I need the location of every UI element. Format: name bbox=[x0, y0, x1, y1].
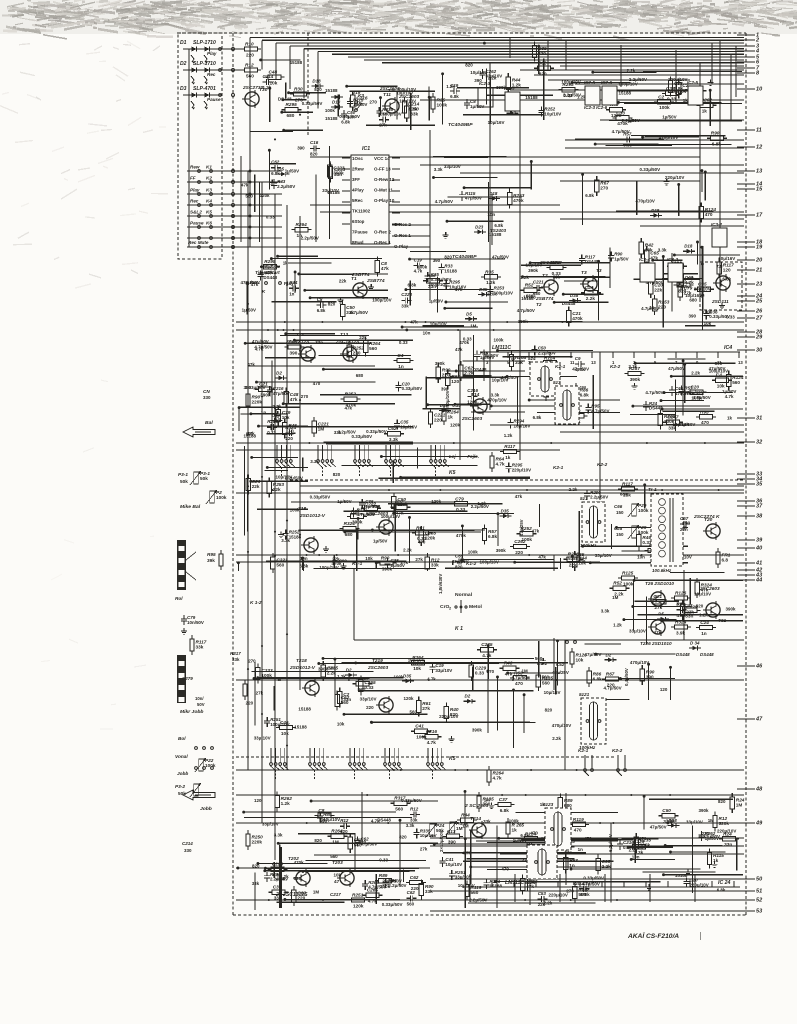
svg-text:0.33: 0.33 bbox=[267, 430, 276, 435]
svg-text:10k: 10k bbox=[365, 556, 373, 561]
svg-text:37: 37 bbox=[756, 504, 763, 510]
svg-text:470k: 470k bbox=[572, 316, 583, 321]
svg-text:O-Play: O-Play bbox=[394, 244, 409, 249]
svg-text:2.2μ/50V: 2.2μ/50V bbox=[277, 184, 295, 189]
svg-text:2x 2SC1312S: 2x 2SC1312S bbox=[275, 892, 308, 898]
svg-text:4.7μ/50V: 4.7μ/50V bbox=[604, 685, 622, 690]
svg-text:10μ/16V: 10μ/16V bbox=[400, 425, 417, 430]
svg-text:220μ/10V: 220μ/10V bbox=[439, 714, 458, 719]
svg-text:100μ/10V: 100μ/10V bbox=[428, 282, 447, 287]
svg-text:C62: C62 bbox=[271, 160, 280, 165]
svg-text:560: 560 bbox=[341, 700, 349, 705]
svg-text:47k: 47k bbox=[677, 613, 685, 618]
svg-text:47k: 47k bbox=[650, 256, 658, 261]
svg-text:1n: 1n bbox=[569, 863, 575, 868]
svg-text:47μ/25V: 47μ/25V bbox=[552, 670, 569, 675]
svg-text:D2: D2 bbox=[606, 652, 612, 657]
svg-text:6.8k: 6.8k bbox=[712, 142, 722, 147]
svg-text:S&L2: S&L2 bbox=[190, 210, 202, 215]
svg-text:T219: T219 bbox=[372, 658, 383, 663]
svg-text:820: 820 bbox=[538, 51, 546, 56]
svg-text:10k: 10k bbox=[281, 731, 289, 736]
svg-text:4.7μ/50V: 4.7μ/50V bbox=[254, 344, 272, 349]
svg-text:T12: T12 bbox=[296, 332, 304, 337]
svg-text:IC3-2: IC3-2 bbox=[667, 257, 678, 262]
svg-text:100k: 100k bbox=[261, 673, 272, 678]
svg-text:10μ/10V: 10μ/10V bbox=[470, 70, 487, 75]
svg-text:1M: 1M bbox=[708, 818, 714, 823]
svg-text:47μ/50V: 47μ/50V bbox=[492, 255, 509, 260]
svg-text:R251: R251 bbox=[352, 892, 364, 897]
svg-text:270: 270 bbox=[248, 659, 256, 664]
svg-text:560: 560 bbox=[732, 380, 740, 385]
svg-text:R119: R119 bbox=[573, 817, 584, 822]
svg-text:5z3: 5z3 bbox=[553, 380, 561, 385]
svg-text:33k: 33k bbox=[483, 819, 491, 824]
svg-text:22k: 22k bbox=[339, 279, 347, 284]
svg-text:29: 29 bbox=[755, 335, 763, 341]
svg-text:25: 25 bbox=[755, 299, 763, 305]
svg-text:47k: 47k bbox=[290, 397, 298, 402]
svg-text:D5: D5 bbox=[658, 612, 664, 617]
svg-text:820: 820 bbox=[465, 63, 473, 68]
svg-text:220: 220 bbox=[411, 886, 419, 891]
svg-text:T30: T30 bbox=[259, 87, 268, 93]
svg-text:3.3k: 3.3k bbox=[434, 167, 443, 172]
svg-text:TC4049BP: TC4049BP bbox=[452, 254, 477, 260]
svg-text:47μ/25V: 47μ/25V bbox=[519, 519, 524, 536]
svg-text:820: 820 bbox=[314, 838, 322, 843]
svg-text:R44: R44 bbox=[461, 813, 470, 818]
svg-text:T26 2SD1010: T26 2SD1010 bbox=[645, 581, 674, 586]
svg-text:820: 820 bbox=[310, 151, 318, 156]
svg-text:470k: 470k bbox=[332, 561, 342, 566]
svg-text:D18: D18 bbox=[312, 79, 321, 84]
svg-text:C223: C223 bbox=[401, 292, 412, 297]
svg-text:1.2k: 1.2k bbox=[520, 275, 529, 280]
svg-text:6,2μ/50V: 6,2μ/50V bbox=[608, 834, 613, 852]
svg-text:2SD111: 2SD111 bbox=[711, 299, 729, 305]
svg-text:1k: 1k bbox=[713, 858, 719, 863]
svg-text:53: 53 bbox=[756, 909, 763, 915]
svg-text:120: 120 bbox=[723, 267, 731, 272]
svg-text:120: 120 bbox=[660, 687, 668, 692]
svg-text:R90: R90 bbox=[381, 555, 390, 560]
svg-text:820: 820 bbox=[718, 799, 726, 804]
svg-text:4.7μ/50V: 4.7μ/50V bbox=[591, 409, 609, 414]
svg-text:1.2k: 1.2k bbox=[613, 623, 622, 628]
svg-text:470: 470 bbox=[701, 420, 709, 425]
svg-text:2.2k: 2.2k bbox=[488, 76, 497, 81]
svg-text:470: 470 bbox=[418, 539, 426, 544]
svg-text:15188: 15188 bbox=[444, 268, 457, 273]
svg-text:26: 26 bbox=[755, 309, 763, 315]
svg-text:0.33μ/50V: 0.33μ/50V bbox=[382, 902, 403, 907]
svg-text:10μ/16V: 10μ/16V bbox=[488, 120, 505, 125]
svg-text:100μ/10V: 100μ/10V bbox=[480, 560, 499, 565]
svg-text:3.3k: 3.3k bbox=[666, 818, 675, 823]
svg-text:0.33μ/50V: 0.33μ/50V bbox=[366, 429, 387, 434]
svg-text:2×10μ/10V: 2×10μ/10V bbox=[439, 830, 444, 852]
svg-text:R253: R253 bbox=[357, 676, 369, 681]
svg-text:3.9k: 3.9k bbox=[676, 601, 686, 606]
svg-text:390k: 390k bbox=[472, 728, 482, 733]
svg-text:820: 820 bbox=[573, 881, 581, 886]
svg-text:O-Play 10: O-Play 10 bbox=[374, 198, 395, 203]
svg-text:47k: 47k bbox=[381, 266, 389, 271]
svg-text:390: 390 bbox=[290, 350, 298, 355]
svg-text:220: 220 bbox=[434, 417, 442, 422]
svg-text:T14: T14 bbox=[471, 392, 480, 398]
svg-text:1μ/50V: 1μ/50V bbox=[722, 389, 736, 394]
svg-text:4.7k: 4.7k bbox=[427, 740, 437, 745]
svg-text:C66: C66 bbox=[614, 504, 623, 509]
svg-text:27k: 27k bbox=[379, 123, 387, 128]
svg-text:10μ/10V: 10μ/10V bbox=[694, 592, 711, 597]
svg-text:10μ/10V: 10μ/10V bbox=[445, 862, 462, 867]
svg-text:CN: CN bbox=[203, 389, 210, 394]
svg-text:270: 270 bbox=[600, 186, 608, 191]
svg-text:51: 51 bbox=[756, 889, 762, 895]
svg-text:220μ/10V: 220μ/10V bbox=[512, 467, 531, 472]
svg-text:560: 560 bbox=[578, 892, 586, 897]
svg-text:0,4μ/50V: 0,4μ/50V bbox=[624, 668, 629, 686]
svg-text:R317: R317 bbox=[230, 651, 241, 656]
svg-text:C279: C279 bbox=[182, 676, 193, 681]
svg-text:K2: K2 bbox=[206, 176, 212, 181]
svg-text:C52: C52 bbox=[556, 662, 565, 667]
svg-text:1n: 1n bbox=[398, 364, 404, 369]
svg-text:1n: 1n bbox=[288, 428, 294, 433]
svg-text:18k: 18k bbox=[623, 492, 631, 497]
svg-text:D2: D2 bbox=[465, 694, 471, 699]
svg-text:39k: 39k bbox=[207, 558, 215, 563]
svg-text:470: 470 bbox=[501, 867, 509, 872]
svg-text:0.33μ/50V: 0.33μ/50V bbox=[401, 798, 422, 803]
svg-text:390k: 390k bbox=[333, 171, 344, 176]
svg-text:1M: 1M bbox=[318, 426, 325, 431]
svg-text:11: 11 bbox=[717, 360, 722, 365]
svg-text:470: 470 bbox=[515, 681, 523, 686]
svg-text:100k: 100k bbox=[494, 337, 504, 342]
svg-text:D2: D2 bbox=[276, 370, 282, 375]
svg-text:T218: T218 bbox=[296, 658, 307, 663]
svg-text:Pause: Pause bbox=[207, 97, 221, 102]
svg-text:SLP-1710: SLP-1710 bbox=[193, 40, 216, 46]
svg-text:390: 390 bbox=[297, 145, 305, 150]
svg-text:5z1: 5z1 bbox=[580, 496, 588, 501]
svg-text:3.3k: 3.3k bbox=[274, 832, 283, 837]
svg-text:560: 560 bbox=[410, 709, 418, 714]
svg-text:TS2403: TS2403 bbox=[490, 228, 507, 233]
svg-text:10k: 10k bbox=[717, 384, 725, 389]
svg-text:470: 470 bbox=[574, 828, 582, 833]
svg-text:10μ/10V: 10μ/10V bbox=[430, 321, 447, 326]
svg-text:27k: 27k bbox=[256, 690, 264, 695]
svg-text:D18: D18 bbox=[684, 244, 693, 249]
svg-text:C28: C28 bbox=[614, 526, 623, 531]
svg-text:1M: 1M bbox=[456, 826, 463, 831]
svg-text:C37: C37 bbox=[499, 797, 508, 802]
svg-text:2.2μ/50V: 2.2μ/50V bbox=[469, 898, 487, 903]
svg-text:47: 47 bbox=[334, 879, 340, 884]
svg-text:48: 48 bbox=[755, 787, 763, 793]
svg-text:1M: 1M bbox=[484, 797, 490, 802]
svg-text:1μ/50V: 1μ/50V bbox=[484, 353, 498, 358]
svg-text:10n: 10n bbox=[637, 554, 645, 559]
svg-text:5z24: 5z24 bbox=[525, 880, 536, 885]
svg-text:33k: 33k bbox=[515, 360, 523, 365]
svg-text:5Rec: 5Rec bbox=[352, 198, 363, 203]
svg-text:150: 150 bbox=[616, 510, 624, 515]
svg-text:560: 560 bbox=[276, 563, 284, 568]
svg-text:C19: C19 bbox=[414, 257, 423, 262]
svg-text:R324: R324 bbox=[675, 619, 687, 624]
svg-text:40: 40 bbox=[755, 546, 763, 552]
svg-text:2.2μ/50V: 2.2μ/50V bbox=[629, 77, 647, 82]
svg-text:100k: 100k bbox=[417, 265, 427, 270]
svg-text:47μ/50V: 47μ/50V bbox=[273, 391, 290, 396]
svg-text:5z21: 5z21 bbox=[579, 692, 590, 697]
svg-text:C221: C221 bbox=[533, 280, 544, 285]
svg-text:390k: 390k bbox=[496, 548, 506, 553]
svg-text:3.3k: 3.3k bbox=[389, 437, 399, 442]
svg-text:120k: 120k bbox=[353, 903, 364, 908]
svg-text:4.7μ/50V: 4.7μ/50V bbox=[517, 308, 535, 313]
svg-text:5z23: 5z23 bbox=[543, 802, 554, 807]
svg-text:27k: 27k bbox=[422, 706, 430, 711]
svg-text:K2-1: K2-1 bbox=[578, 748, 589, 753]
svg-text:0.33: 0.33 bbox=[452, 403, 461, 408]
svg-text:10k: 10k bbox=[576, 658, 584, 663]
svg-text:Normal: Normal bbox=[455, 592, 473, 598]
svg-text:SLP-1710: SLP-1710 bbox=[193, 61, 216, 67]
svg-text:100k: 100k bbox=[468, 550, 478, 555]
svg-text:33μ/10V: 33μ/10V bbox=[435, 668, 452, 673]
svg-text:3.3k: 3.3k bbox=[658, 248, 667, 253]
svg-text:2.2k: 2.2k bbox=[627, 68, 636, 73]
svg-text:2SD1012-V: 2SD1012-V bbox=[289, 665, 316, 671]
svg-text:K2-2: K2-2 bbox=[597, 462, 608, 467]
svg-text:15188: 15188 bbox=[290, 60, 303, 65]
svg-text:0.33: 0.33 bbox=[667, 97, 677, 102]
svg-text:220k: 220k bbox=[252, 840, 263, 845]
svg-text:47μ/50V: 47μ/50V bbox=[668, 366, 685, 371]
svg-text:15188: 15188 bbox=[294, 725, 307, 730]
svg-text:100k: 100k bbox=[638, 508, 649, 513]
svg-text:1M: 1M bbox=[332, 840, 339, 845]
svg-text:27k: 27k bbox=[420, 847, 428, 852]
svg-text:D2: D2 bbox=[346, 668, 352, 673]
svg-text:4.7k: 4.7k bbox=[496, 462, 506, 467]
svg-text:470μ/10V: 470μ/10V bbox=[552, 723, 571, 728]
svg-text:33μ/10V: 33μ/10V bbox=[444, 164, 461, 169]
svg-text:2.2μ/50V: 2.2μ/50V bbox=[388, 883, 406, 888]
svg-text:15188: 15188 bbox=[325, 116, 338, 121]
svg-text:2.2μ/50V: 2.2μ/50V bbox=[590, 495, 608, 500]
svg-text:0.33μ/50V: 0.33μ/50V bbox=[352, 434, 373, 439]
svg-text:4.7μ/50V: 4.7μ/50V bbox=[645, 390, 663, 395]
svg-text:100μ/10V: 100μ/10V bbox=[372, 298, 391, 303]
svg-text:IC2-5: IC2-5 bbox=[584, 80, 595, 85]
svg-text:470μ/10V: 470μ/10V bbox=[659, 135, 678, 140]
svg-text:10μ/16V: 10μ/16V bbox=[673, 422, 690, 427]
svg-text:32: 32 bbox=[756, 440, 763, 446]
svg-text:50k: 50k bbox=[200, 476, 208, 481]
svg-text:47μ/50V: 47μ/50V bbox=[585, 652, 602, 657]
svg-text:150: 150 bbox=[616, 532, 624, 537]
svg-text:T18: T18 bbox=[298, 506, 306, 511]
svg-text:30: 30 bbox=[756, 348, 763, 354]
svg-text:12: 12 bbox=[756, 145, 763, 151]
svg-text:3.3k: 3.3k bbox=[491, 392, 500, 397]
svg-text:R89: R89 bbox=[379, 873, 388, 878]
svg-text:Rew: Rew bbox=[190, 165, 200, 170]
svg-text:2.2μ/50V: 2.2μ/50V bbox=[622, 118, 640, 123]
svg-text:15: 15 bbox=[756, 187, 763, 193]
svg-text:Mikr Jobb: Mikr Jobb bbox=[180, 709, 203, 715]
svg-text:31: 31 bbox=[756, 416, 762, 422]
svg-text:220k: 220k bbox=[252, 400, 263, 405]
svg-text:C62: C62 bbox=[407, 890, 416, 895]
svg-text:D 34: D 34 bbox=[690, 641, 700, 646]
svg-text:K2-1: K2-1 bbox=[555, 364, 566, 369]
svg-text:1n: 1n bbox=[578, 847, 583, 852]
svg-text:11: 11 bbox=[756, 128, 762, 134]
svg-text:100.6kHz: 100.6kHz bbox=[652, 568, 672, 573]
svg-text:50V: 50V bbox=[197, 702, 205, 707]
svg-text:390: 390 bbox=[244, 385, 252, 390]
svg-text:220μ/10V: 220μ/10V bbox=[665, 175, 684, 180]
svg-text:IC2-6: IC2-6 bbox=[601, 80, 612, 85]
svg-text:33μ/10V: 33μ/10V bbox=[595, 553, 612, 558]
svg-text:390k: 390k bbox=[435, 361, 445, 366]
svg-text:35: 35 bbox=[756, 482, 763, 488]
svg-text:10k: 10k bbox=[704, 321, 712, 326]
svg-text:1μ/50V: 1μ/50V bbox=[337, 499, 351, 504]
svg-text:15188: 15188 bbox=[298, 707, 311, 712]
svg-text:0.33μ/50V: 0.33μ/50V bbox=[402, 386, 423, 391]
svg-text:220: 220 bbox=[246, 52, 254, 57]
svg-text:5z4: 5z4 bbox=[528, 356, 536, 361]
svg-text:1μ/50V: 1μ/50V bbox=[373, 539, 387, 544]
svg-text:220μ/10V: 220μ/10V bbox=[717, 829, 736, 834]
svg-text:Play: Play bbox=[207, 51, 217, 56]
svg-text:6.8k: 6.8k bbox=[500, 808, 510, 813]
svg-text:LM111C: LM111C bbox=[492, 345, 511, 351]
svg-text:D35: D35 bbox=[501, 508, 510, 513]
svg-text:2SC2603: 2SC2603 bbox=[379, 86, 400, 91]
svg-text:220μ/10V: 220μ/10V bbox=[549, 892, 568, 897]
svg-text:33k: 33k bbox=[410, 818, 418, 823]
svg-text:O-FF 13: O-FF 13 bbox=[374, 167, 391, 172]
svg-text:IC3-4: IC3-4 bbox=[639, 257, 650, 262]
svg-text:2SC2603: 2SC2603 bbox=[398, 94, 419, 100]
svg-text:33μ/10V: 33μ/10V bbox=[262, 822, 279, 827]
svg-text:2.2k: 2.2k bbox=[403, 547, 412, 552]
svg-text:47μ/50V: 47μ/50V bbox=[650, 825, 667, 830]
svg-text:10n/: 10n/ bbox=[195, 696, 204, 701]
svg-text:100k: 100k bbox=[522, 537, 533, 542]
svg-text:820: 820 bbox=[333, 472, 341, 477]
svg-text:10n/50V: 10n/50V bbox=[187, 620, 204, 625]
svg-text:0.33μ/50V: 0.33μ/50V bbox=[339, 114, 360, 119]
svg-text:47k: 47k bbox=[247, 362, 255, 367]
svg-text:IC2-2: IC2-2 bbox=[504, 86, 515, 91]
svg-text:Mike Bal: Mike Bal bbox=[180, 504, 201, 510]
svg-text:10μ/10V: 10μ/10V bbox=[492, 377, 509, 382]
svg-text:390k: 390k bbox=[726, 607, 736, 612]
svg-text:R12: R12 bbox=[245, 62, 254, 67]
svg-text:22k: 22k bbox=[252, 484, 260, 489]
svg-text:2Rew: 2Rew bbox=[352, 167, 364, 172]
svg-text:2.2k: 2.2k bbox=[273, 404, 282, 409]
svg-text:15188: 15188 bbox=[525, 95, 538, 100]
svg-text:270: 270 bbox=[487, 669, 495, 674]
svg-text:4.7k: 4.7k bbox=[462, 850, 471, 855]
svg-text:2SC1312S: 2SC1312S bbox=[285, 339, 310, 345]
svg-text:K5: K5 bbox=[449, 470, 456, 476]
svg-text:1M: 1M bbox=[736, 803, 743, 808]
svg-text:100k: 100k bbox=[394, 675, 404, 680]
svg-text:0.33μ/50V: 0.33μ/50V bbox=[302, 101, 323, 106]
svg-text:6.8k: 6.8k bbox=[488, 534, 498, 539]
svg-text:33k: 33k bbox=[410, 112, 418, 117]
svg-text:R12: R12 bbox=[410, 806, 419, 811]
svg-text:33k: 33k bbox=[252, 881, 260, 886]
svg-text:C235: C235 bbox=[481, 642, 493, 647]
svg-text:47: 47 bbox=[755, 717, 763, 723]
svg-text:10μ/10V: 10μ/10V bbox=[544, 111, 561, 116]
svg-text:6.8: 6.8 bbox=[722, 558, 729, 563]
svg-text:33μ/10V: 33μ/10V bbox=[686, 820, 703, 825]
svg-text:4.7μ/50V: 4.7μ/50V bbox=[350, 310, 368, 315]
svg-text:Rol: Rol bbox=[175, 596, 183, 601]
svg-text:D18: D18 bbox=[651, 208, 660, 213]
svg-text:47μ/50V: 47μ/50V bbox=[572, 366, 589, 371]
svg-text:560: 560 bbox=[246, 73, 254, 78]
svg-text:10μ/16V: 10μ/16V bbox=[544, 690, 561, 695]
svg-text:27k: 27k bbox=[415, 557, 423, 562]
svg-text:33μ/10V: 33μ/10V bbox=[254, 736, 271, 741]
svg-text:C79: C79 bbox=[455, 496, 464, 501]
svg-text:R264: R264 bbox=[296, 222, 308, 227]
svg-text:820: 820 bbox=[328, 302, 336, 307]
svg-text:R295: R295 bbox=[286, 102, 298, 107]
svg-text:470k: 470k bbox=[456, 533, 466, 538]
svg-text:T3: T3 bbox=[581, 270, 587, 276]
svg-text:10μ/16V: 10μ/16V bbox=[514, 423, 531, 428]
svg-text:K1-1: K1-1 bbox=[352, 561, 363, 566]
svg-text:100μ/10V: 100μ/10V bbox=[667, 89, 686, 94]
svg-text:2.2k: 2.2k bbox=[602, 864, 612, 869]
svg-text:C36: C36 bbox=[273, 885, 282, 890]
svg-text:10: 10 bbox=[756, 87, 763, 93]
svg-text:1.2k: 1.2k bbox=[337, 674, 346, 679]
svg-text:K3: K3 bbox=[206, 188, 212, 193]
svg-text:C24: C24 bbox=[700, 620, 709, 625]
svg-text:2SC2603: 2SC2603 bbox=[699, 586, 720, 591]
svg-text:820: 820 bbox=[314, 87, 322, 92]
svg-text:C62: C62 bbox=[538, 61, 547, 66]
svg-text:IC1: IC1 bbox=[362, 146, 370, 152]
svg-text:120: 120 bbox=[254, 798, 262, 803]
svg-text:R117: R117 bbox=[504, 444, 515, 449]
svg-text:47k: 47k bbox=[538, 555, 546, 560]
svg-text:1.2k: 1.2k bbox=[486, 280, 496, 285]
svg-text:19: 19 bbox=[756, 245, 763, 251]
svg-text:100μ/10V: 100μ/10V bbox=[561, 80, 580, 85]
